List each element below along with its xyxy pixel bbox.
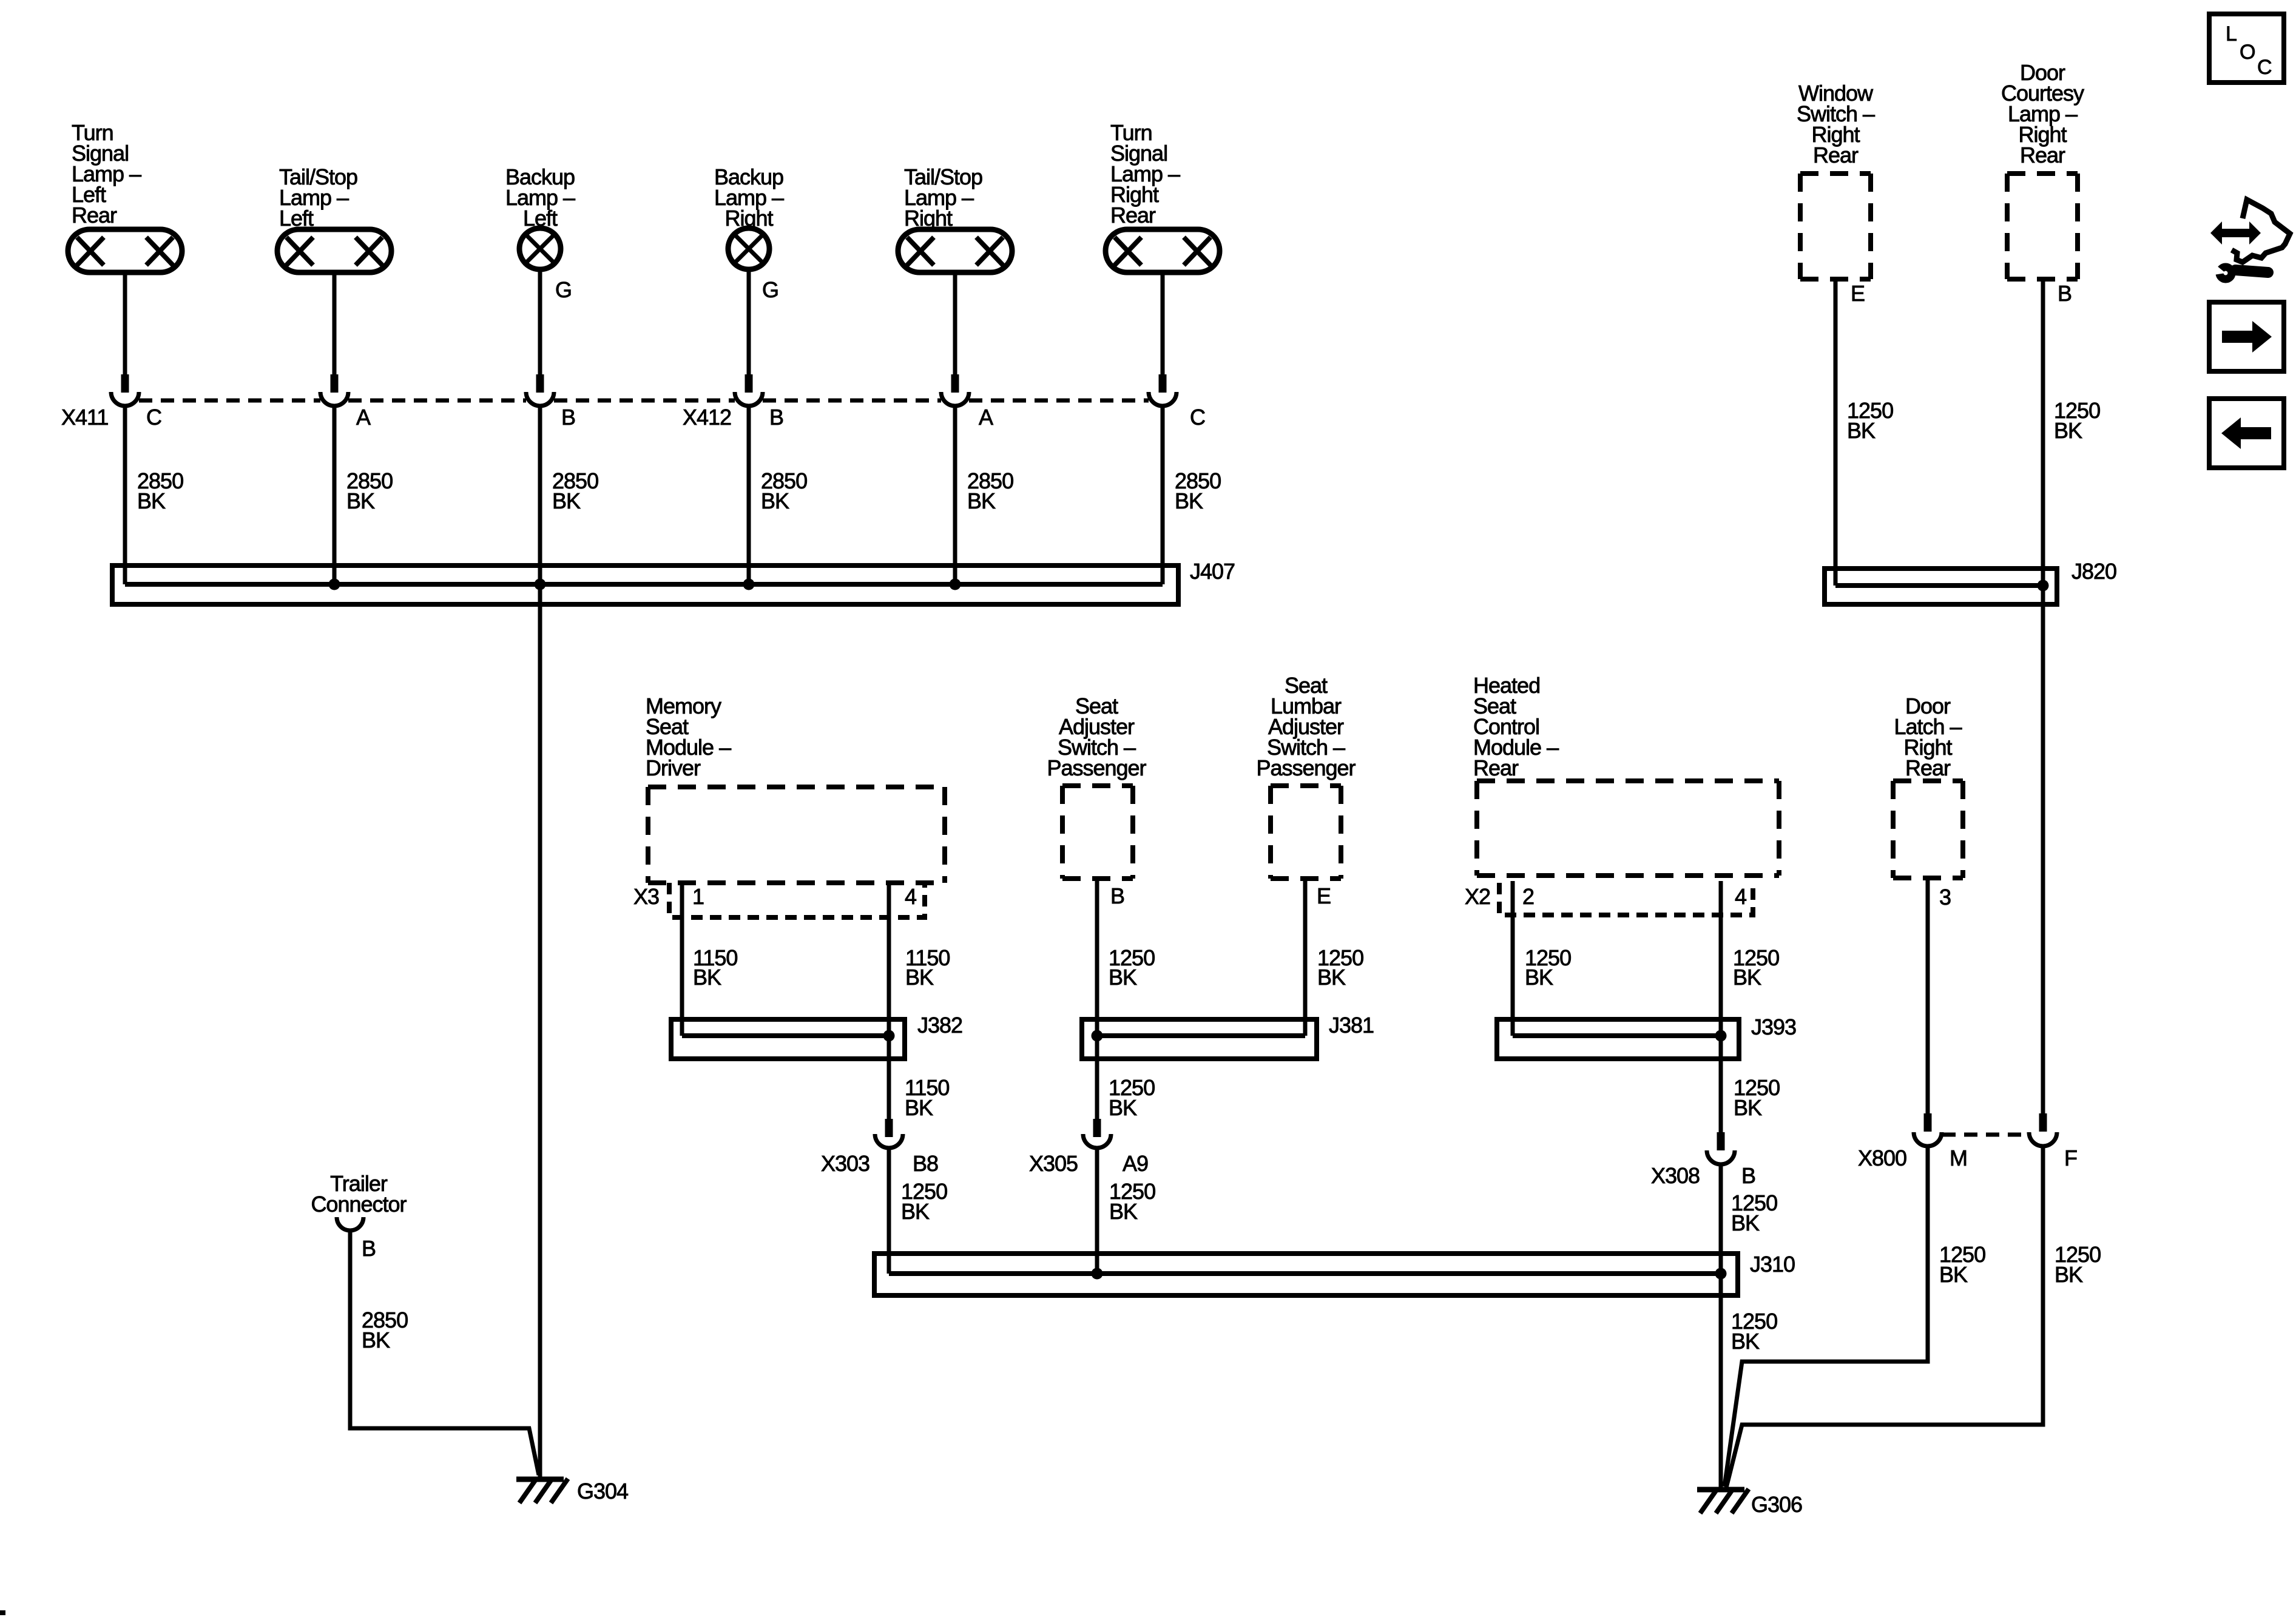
pin label F (X800) [2064, 1146, 2077, 1170]
component label: Door Latch - Right Rear [1894, 694, 1962, 780]
wire label 1250 BK (below J381) [1109, 1075, 1155, 1120]
svg-text:E: E [1851, 281, 1865, 306]
svg-text:BK: BK [1731, 1329, 1760, 1354]
svg-text:BK: BK [1733, 965, 1761, 990]
wire label 1250 BK (X2 pin 2) [1525, 945, 1571, 990]
component label: Seat Adjuster Switch - Passenger [1047, 694, 1146, 780]
component box: Window Switch - Right Rear [1800, 174, 1871, 279]
label X411 [61, 405, 108, 430]
junction on J393 [1715, 1030, 1727, 1042]
svg-text:X411: X411 [61, 405, 108, 430]
component box: Memory Seat Module - Driver [648, 787, 945, 883]
wire 1250 BK X305 to J310 [1095, 1148, 1099, 1274]
svg-text:BK: BK [2055, 1262, 2083, 1287]
svg-text:X412: X412 [683, 405, 731, 430]
svg-text:J310: J310 [1750, 1252, 1795, 1277]
component box: Seat Lumbar Adjuster Switch - Passenger [1271, 786, 1341, 879]
wire label 1250 BK (Window Switch) [1847, 398, 1893, 443]
svg-text:J820: J820 [2071, 559, 2116, 584]
lamp label: Tail/Stop Lamp - Left [279, 164, 357, 231]
pin label G (Backup Lamp - Left) [555, 277, 572, 302]
component label: Heated Seat Control Module - Rear [1473, 673, 1559, 780]
lamp E2 Tail/Stop Lamp - Left (dual filament symbol) [277, 229, 391, 272]
svg-text:Rear: Rear [1905, 755, 1951, 780]
wire label 1250 BK (Seat Adjuster B) [1109, 945, 1155, 990]
wire label 1250 BK (X308) [1731, 1190, 1777, 1235]
svg-text:J393: J393 [1751, 1014, 1796, 1039]
wire 2850 BK Trailer Connector to G304 [350, 1230, 539, 1475]
junction on J820 [2038, 580, 2049, 592]
wire Tail/Stop R lamp to connector [953, 272, 957, 374]
wire 1250 BK Door Latch 3 to X800 M [1926, 879, 1930, 1113]
svg-text:BK: BK [761, 488, 789, 513]
svg-text:G306: G306 [1751, 1492, 1802, 1517]
svg-text:E: E [1317, 883, 1331, 908]
wire label 2850 BK (Turn L) [137, 468, 183, 513]
connector X800 pin M [1914, 1113, 1942, 1146]
component box: Door Latch - Right Rear [1893, 781, 1963, 878]
wire 1250 BK X2 pin 2 to J393 [1511, 881, 1515, 1036]
pin label A9 [1123, 1151, 1148, 1176]
lamp label: Turn Signal Lamp - Left Rear [72, 120, 141, 228]
connector Trailer Connector pin B (cup) [337, 1217, 363, 1230]
svg-text:B: B [2058, 281, 2071, 306]
junction on J407 at x=1574 [950, 579, 961, 590]
wire label 2850 BK (Tail/Stop R) [967, 468, 1013, 513]
pin label A (X412) [979, 405, 993, 430]
lamp label: Turn Signal Lamp - Right Rear [1110, 120, 1180, 228]
svg-text:BK: BK [1847, 418, 1876, 443]
svg-text:B: B [769, 405, 783, 430]
lamp E5 Tail/Stop Lamp - Right (dual filament symbol) [898, 229, 1012, 272]
wire 1250 BK X800 F to G306 [1726, 1146, 2043, 1488]
connector X411 inline dashed line [139, 399, 1149, 403]
connector X800 pin F [2029, 1113, 2057, 1146]
wire 2850 BK (Backup R) to J407 [747, 406, 751, 584]
wire label 1150 BK (pin 4) [905, 945, 950, 990]
svg-text:G: G [555, 277, 572, 302]
wire 1150 BK X3 pin 1 to J382 [680, 881, 684, 1036]
pin label C (X412) [1190, 405, 1205, 430]
svg-text:BK: BK [1525, 965, 1553, 990]
svg-text:A: A [356, 405, 371, 430]
wire label 1250 BK (X800 F) [2055, 1242, 2101, 1287]
icon: connector-view tool (double arrow, outline, wrench) [2210, 200, 2290, 279]
junction on J310 (X305 wire) [1092, 1268, 1103, 1280]
wire 2850 BK (Tail/Stop L) to J407 [333, 406, 337, 584]
component box: Door Courtesy Lamp - Right Rear [2007, 174, 2078, 279]
wire Backup R lamp to connector [747, 269, 751, 374]
svg-text:Rear: Rear [2020, 143, 2065, 167]
svg-text:2: 2 [1522, 884, 1534, 909]
lamp E4 Backup Lamp - Right (single bulb symbol) [728, 228, 769, 269]
splice J381 [1082, 1013, 1374, 1059]
wire 1250 BK Window Switch E to J820 [1834, 279, 1838, 586]
svg-text:A: A [979, 405, 993, 430]
connector X3 sub-box (Memory Seat Module) [669, 883, 925, 917]
wire 2850 BK (Tail/Stop R) to J407 [953, 406, 957, 584]
svg-text:BK: BK [967, 488, 996, 513]
wire Turn R lamp to connector [1161, 272, 1165, 374]
icon: right arrow box [2209, 302, 2284, 371]
wire 2850 BK (Turn L) to J407 [123, 406, 127, 584]
pin label 4 (X3) [905, 884, 916, 909]
splice J393 [1497, 1014, 1796, 1059]
wire label 2850 BK (Tail/Stop L) [346, 468, 393, 513]
wire label 1250 BK (X305) [1109, 1179, 1155, 1224]
svg-text:B: B [1110, 883, 1124, 908]
splice J407 [112, 559, 1235, 604]
wire label 1250 BK (Door Courtesy Lamp) [2054, 398, 2100, 443]
lamp label: Backup Lamp - Right [714, 164, 784, 231]
pin label 1 (X3) [692, 884, 704, 909]
svg-text:Rear: Rear [1110, 203, 1156, 228]
label X308 [1651, 1163, 1700, 1188]
svg-text:O: O [2240, 41, 2255, 64]
junction on J381 [1092, 1030, 1103, 1042]
svg-text:B: B [362, 1236, 376, 1261]
pin label M (X800) [1950, 1146, 1967, 1170]
svg-text:F: F [2064, 1146, 2077, 1170]
svg-text:Passenger: Passenger [1256, 755, 1356, 780]
icon: left arrow box [2209, 399, 2284, 468]
pin label B8 [913, 1151, 938, 1176]
pin label 4 (X2) [1735, 884, 1746, 909]
pin label 2 (X2) [1522, 884, 1534, 909]
svg-text:B8: B8 [913, 1151, 938, 1176]
splice J310 [874, 1252, 1795, 1295]
wire 1150 BK X3 pin 4 through J382 to X303 [887, 881, 891, 1119]
wire Backup L lamp to connector [538, 269, 542, 374]
component label: Door Courtesy Lamp - Right Rear [2001, 60, 2084, 167]
lamp label: Backup Lamp - Left [505, 164, 575, 231]
svg-text:M: M [1950, 1146, 1967, 1170]
pin label B (X308) [1741, 1163, 1755, 1188]
label X800 [1858, 1146, 1906, 1170]
svg-text:J407: J407 [1190, 559, 1235, 584]
wire label 1250 BK (X2 pin 4) [1733, 945, 1779, 990]
svg-text:X800: X800 [1858, 1146, 1906, 1170]
pin label E (Seat Lumbar Adjuster Switch) [1317, 883, 1331, 908]
svg-text:BK: BK [905, 965, 934, 990]
wire 1250 BK Seat Adjuster B through J381 to X305 [1095, 879, 1099, 1119]
svg-text:BK: BK [2054, 418, 2082, 443]
pin label 3 (Door Latch) [1939, 885, 1951, 910]
svg-text:X2: X2 [1465, 884, 1490, 909]
connector X800 inline dashed line [1942, 1133, 2028, 1137]
svg-text:BK: BK [1109, 965, 1137, 990]
svg-text:X303: X303 [821, 1151, 869, 1176]
connector pin B (Backup L) [526, 374, 554, 406]
component label: Window Switch - Right Rear [1797, 81, 1875, 167]
junction on J310 (X308 wire) [1715, 1268, 1727, 1280]
svg-text:G: G [762, 277, 778, 302]
junction on J407 at x=890 [535, 579, 546, 590]
svg-text:Rear: Rear [1813, 143, 1859, 167]
wire 1250 BK X800 M to G306 [1724, 1146, 1928, 1487]
wire label 2850 BK (Backup L) [552, 468, 598, 513]
svg-text:J381: J381 [1329, 1013, 1374, 1038]
svg-text:BK: BK [901, 1199, 930, 1224]
svg-text:BK: BK [1109, 1095, 1137, 1120]
lamp label: Tail/Stop Lamp - Right [904, 164, 982, 231]
svg-text:B: B [561, 405, 575, 430]
wire label 1250 BK (X303) [901, 1179, 947, 1224]
svg-text:A9: A9 [1123, 1151, 1148, 1176]
connector pin A (Tail/Stop R) [941, 374, 969, 406]
svg-text:4: 4 [905, 884, 916, 909]
pin label A (X411) [356, 405, 371, 430]
svg-text:BK: BK [1175, 488, 1203, 513]
label X305 [1029, 1151, 1078, 1176]
svg-text:1: 1 [692, 884, 704, 909]
pin label G (Backup Lamp - Right) [762, 277, 778, 302]
wire 1250 BK X2 pin 4 through J393 down to X308 [1719, 881, 1723, 1132]
wire label 1250 BK (X800 M) [1939, 1242, 1985, 1287]
splice J382 [671, 1013, 962, 1059]
wire 1250 BK Seat Lumbar E to J381 [1303, 879, 1308, 1036]
connector pin B (Backup R) [735, 374, 763, 406]
label X2 [1465, 884, 1490, 909]
pin label B (Seat Adjuster Switch) [1110, 883, 1124, 908]
lamp E3 Backup Lamp - Left (single bulb symbol) [519, 228, 561, 269]
wire 1250 BK X303 to J310 [887, 1148, 891, 1274]
pin label E (Window Switch) [1851, 281, 1865, 306]
svg-text:BK: BK [346, 488, 375, 513]
icon: LOC legend box [2209, 14, 2284, 83]
component label: Memory Seat Module - Driver [646, 694, 731, 780]
svg-text:BK: BK [1939, 1262, 1968, 1287]
wire label 1150 BK (pin 1) [693, 945, 737, 990]
svg-text:BK: BK [905, 1095, 933, 1120]
svg-text:X305: X305 [1029, 1151, 1078, 1176]
component box: Seat Adjuster Switch - Passenger [1062, 786, 1133, 879]
junction on J407 at x=1234 [743, 579, 755, 590]
svg-text:C: C [146, 405, 161, 430]
svg-text:L: L [2226, 22, 2237, 46]
connector X2 sub-box (Heated Seat Control Module) [1499, 883, 1753, 915]
wire label 1250 BK (Seat Lumbar E) [1317, 945, 1363, 990]
wire label 2850 BK (Trailer Connector) [362, 1308, 408, 1352]
svg-text:B: B [1741, 1163, 1755, 1188]
svg-text:Rear: Rear [72, 203, 117, 228]
connector X303 pin B8 [875, 1119, 903, 1148]
component label: Seat Lumbar Adjuster Switch - Passenger [1256, 673, 1356, 780]
wire label 1250 BK (below J393) [1734, 1075, 1780, 1120]
svg-text:X3: X3 [633, 884, 659, 909]
label X412 [683, 405, 731, 430]
component box: Heated Seat Control Module - Rear [1477, 781, 1779, 876]
svg-text:BK: BK [362, 1328, 390, 1352]
wire label 2850 BK (Backup R) [761, 468, 807, 513]
pin label B (X412) [769, 405, 783, 430]
svg-text:4: 4 [1735, 884, 1746, 909]
svg-text:BK: BK [1109, 1199, 1138, 1224]
label X303 [821, 1151, 869, 1176]
wire Tail/Stop L lamp to connector [333, 272, 337, 374]
wire Turn L lamp to connector [123, 272, 127, 374]
pin label B (X411) [561, 405, 575, 430]
svg-text:X308: X308 [1651, 1163, 1700, 1188]
lamp E6 Turn Signal Lamp - Right Rear (dual filament symbol) [1106, 229, 1220, 272]
svg-text:G304: G304 [577, 1479, 628, 1504]
lamp E1 Turn Signal Lamp - Left Rear (dual filament symbol) [68, 229, 182, 272]
svg-text:BK: BK [1734, 1095, 1762, 1120]
wire 2850 BK (Backup L) to J407 [538, 406, 542, 1479]
svg-text:J382: J382 [917, 1013, 962, 1038]
svg-text:C: C [1190, 405, 1205, 430]
wire label 2850 BK (Turn R) [1175, 468, 1221, 513]
svg-text:Driver: Driver [646, 755, 701, 780]
connector pin A (Tail/Stop L) [320, 374, 348, 406]
svg-text:Connector: Connector [311, 1192, 407, 1217]
junction on J407 at x=551 [329, 579, 340, 590]
wire 1250 BK X308 through J310 down to G306 [1719, 1164, 1723, 1490]
svg-text:BK: BK [1317, 965, 1346, 990]
svg-text:BK: BK [137, 488, 166, 513]
svg-text:Rear: Rear [1473, 755, 1519, 780]
connector X305 pin A9 [1083, 1119, 1111, 1148]
pin label B (Door Courtesy Lamp) [2058, 281, 2071, 306]
svg-text:Passenger: Passenger [1047, 755, 1146, 780]
connector pin C (Turn R) [1149, 374, 1177, 406]
scan artifact dot bottom-left [0, 1610, 5, 1615]
wire label 1150 BK (below J382) [905, 1075, 949, 1120]
component label: Trailer Connector [311, 1171, 407, 1217]
splice J820 [1825, 559, 2116, 604]
svg-text:C: C [2257, 56, 2272, 79]
connector pin C (Turn L) [111, 374, 139, 406]
svg-text:3: 3 [1939, 885, 1951, 910]
ground G306 [1697, 1489, 1802, 1517]
wire 2850 BK (Turn R) to J407 [1161, 406, 1165, 584]
wire label 1250 BK (below J310) [1731, 1309, 1777, 1354]
pin label C (X411) [146, 405, 161, 430]
ground G304 [516, 1479, 628, 1504]
junction on J382 [883, 1030, 895, 1042]
svg-text:BK: BK [552, 488, 581, 513]
svg-text:BK: BK [1731, 1210, 1760, 1235]
svg-text:BK: BK [693, 965, 721, 990]
pin label B (Trailer Connector) [362, 1236, 376, 1261]
label X3 [633, 884, 659, 909]
connector X308 pin B [1707, 1132, 1735, 1164]
wire 1250 BK Door Courtesy Lamp B through J820 down to X800 F [2041, 279, 2045, 1113]
